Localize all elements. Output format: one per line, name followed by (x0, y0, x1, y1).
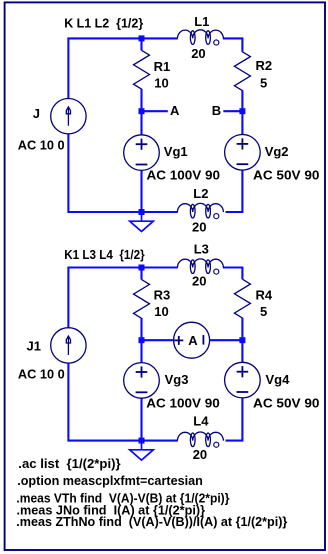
junction mid right (239, 337, 245, 343)
wire (209, 339, 242, 341)
svg-text:K1 L3 L4 {1/2}: K1 L3 L4 {1/2} (64, 247, 145, 262)
svg-text:Vg1: Vg1 (164, 144, 188, 159)
svg-text:J1: J1 (27, 338, 41, 353)
voltage source Vg3 (124, 363, 160, 399)
wire (67, 134, 69, 214)
svg-text:AC 100V 90: AC 100V 90 (147, 168, 221, 183)
wire (223, 266, 244, 268)
wire (67, 38, 69, 99)
wire (67, 363, 69, 442)
resistor R3 (134, 280, 150, 319)
svg-text:L2: L2 (193, 186, 208, 201)
svg-text:Vg4: Vg4 (266, 372, 291, 387)
wire (241, 170, 243, 212)
wire (67, 268, 69, 329)
junction top wire R1 (139, 35, 145, 41)
wire (67, 266, 177, 268)
svg-text:AC 10 0: AC 10 0 (18, 367, 65, 382)
junction mid left (139, 337, 145, 343)
wire (140, 170, 142, 212)
svg-text:B: B (212, 103, 221, 118)
svg-text:R1: R1 (154, 59, 171, 74)
svg-text:L4: L4 (193, 413, 209, 428)
svg-text:AC 50V 90: AC 50V 90 (253, 395, 320, 410)
wire (241, 111, 243, 135)
wire (140, 89, 142, 111)
voltage source Vg1 (124, 135, 160, 171)
svg-text:R4: R4 (256, 288, 273, 303)
wire (140, 398, 142, 441)
svg-text:R3: R3 (154, 288, 171, 303)
wire (140, 38, 142, 50)
ground bottom circuit (141, 441, 143, 450)
wire (241, 268, 243, 280)
wire (140, 318, 142, 340)
svg-text:20: 20 (192, 219, 206, 234)
wire (223, 110, 242, 112)
voltage source Vg2 (225, 135, 261, 171)
resistor R1 (134, 50, 150, 89)
svg-text:A: A (170, 103, 180, 118)
voltage source Vg4 (225, 362, 261, 398)
wire (67, 37, 177, 39)
wire (68, 440, 177, 442)
svg-text:.option meascplxfmt=cartesian: .option meascplxfmt=cartesian (17, 473, 203, 488)
svg-text:R2: R2 (256, 58, 273, 73)
current source J1 (51, 328, 86, 363)
wire (223, 37, 244, 39)
wire (140, 111, 142, 135)
junction top wire R3 (139, 265, 145, 271)
wire (241, 398, 243, 441)
resistor R4 (234, 279, 250, 318)
svg-text:AC 50V 90: AC 50V 90 (253, 168, 320, 183)
inductor L3 (177, 259, 223, 268)
svg-text:10: 10 (154, 76, 168, 91)
current source J (51, 99, 86, 134)
svg-text:K L1 L2 {1/2}: K L1 L2 {1/2} (64, 16, 143, 31)
wire (241, 340, 243, 362)
node A junction (139, 108, 145, 114)
wire (241, 38, 243, 51)
svg-text:20: 20 (192, 274, 206, 289)
wire (241, 90, 243, 111)
junction bottom wire ground (139, 209, 145, 215)
svg-text:10: 10 (154, 304, 168, 319)
svg-text:5: 5 (260, 76, 267, 91)
resistor R2 (234, 52, 250, 91)
wire (140, 268, 142, 280)
wire (226, 440, 244, 442)
svg-text:Vg3: Vg3 (165, 372, 189, 387)
svg-text:AC 10 0: AC 10 0 (18, 137, 65, 152)
svg-text:L1: L1 (194, 14, 209, 29)
svg-text:J: J (33, 106, 40, 121)
svg-text:AC 100V 90: AC 100V 90 (146, 395, 219, 410)
svg-text:Vg2: Vg2 (265, 144, 289, 159)
node B junction (239, 108, 245, 114)
wire (142, 110, 168, 112)
wire (68, 211, 177, 213)
wire (241, 318, 243, 341)
inductor L4 (177, 432, 223, 441)
svg-text:20: 20 (191, 46, 205, 61)
inductor L1 (177, 30, 223, 39)
svg-text:.meas ZThNo find (V(A)-V(B))/: .meas ZThNo find (V(A)-V(B))/I(A) at {1/… (16, 514, 287, 529)
inductor L2 (177, 203, 223, 212)
wire (140, 340, 142, 363)
junction bottom wire ground 2 (139, 438, 145, 444)
svg-text:.ac list {1/(2*pi)}: .ac list {1/(2*pi)} (18, 456, 120, 471)
ground top circuit (141, 212, 143, 221)
wire (226, 211, 244, 213)
wire (142, 339, 174, 341)
svg-text:A: A (188, 333, 198, 348)
svg-text:20: 20 (193, 447, 207, 462)
svg-text:L3: L3 (194, 242, 209, 257)
ammeter source A (0V current sense) (174, 322, 210, 358)
svg-text:5: 5 (260, 304, 267, 319)
